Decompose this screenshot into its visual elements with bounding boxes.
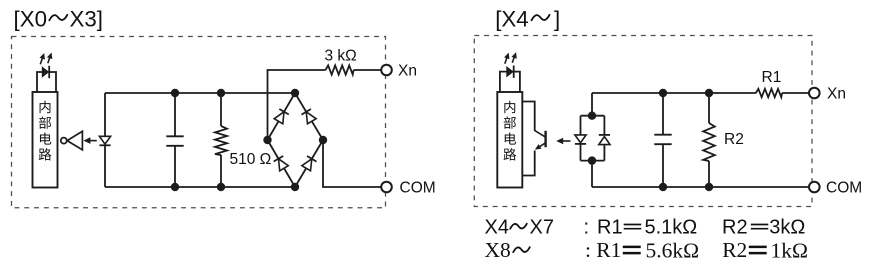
light emission arrows (right LED) bbox=[504, 52, 517, 64]
svg-text:COM: COM bbox=[826, 180, 862, 197]
bridge diode D6 (lower right) bbox=[302, 156, 317, 171]
indicator LED loop wire (right) bbox=[500, 72, 520, 92]
svg-text:1kΩ: 1kΩ bbox=[771, 238, 808, 262]
wire diode-pair top stub bbox=[591, 93, 593, 116]
phototransistor emitter lead bracket bbox=[522, 151, 534, 176]
header label [X0~X3] bbox=[14, 7, 103, 32]
wire bottom rail (right) bbox=[592, 186, 809, 188]
resistor R1 bbox=[756, 89, 809, 97]
svg-text::: : bbox=[585, 238, 591, 262]
terminal Xn (right) bbox=[809, 88, 820, 99]
phototransistor collector lead bracket bbox=[522, 102, 534, 131]
diode bridge arm wires bbox=[268, 93, 324, 187]
capacitor C1 bbox=[166, 93, 183, 187]
svg-text:Xn: Xn bbox=[398, 63, 417, 80]
header label [X4~] bbox=[495, 7, 560, 32]
wire diode-pair bottom bus bbox=[581, 160, 605, 162]
protection diode D9 (right of pair, reversed) bbox=[599, 116, 610, 161]
resistor R6 3kohm bbox=[326, 65, 382, 74]
node dots (diode pair) bbox=[588, 112, 596, 165]
svg-text:R2: R2 bbox=[722, 238, 747, 262]
svg-text:COM: COM bbox=[400, 180, 436, 197]
buffer U2 (receiver) bbox=[61, 131, 83, 150]
bridge node dots bbox=[263, 89, 327, 191]
svg-text:R2: R2 bbox=[722, 217, 748, 239]
svg-text:3 kΩ: 3 kΩ bbox=[325, 48, 357, 65]
bridge diode D3 (upper left) bbox=[274, 109, 289, 124]
svg-text:X7: X7 bbox=[530, 217, 554, 239]
wire photocoupler LED branch (left, x=105) bbox=[104, 93, 106, 187]
svg-text:X3]: X3] bbox=[70, 7, 103, 32]
wire COM branch (left) bbox=[323, 140, 381, 187]
bridge diode D5 (lower left) bbox=[274, 156, 289, 171]
svg-text:]: ] bbox=[554, 7, 560, 32]
svg-text:X4: X4 bbox=[485, 217, 509, 239]
left circuit dashed enclosure bbox=[12, 37, 386, 208]
photocoupler LED D2 bbox=[99, 136, 110, 145]
wire top rail (right) bbox=[592, 92, 756, 94]
note line 1: X4~X7 resistor values bbox=[485, 217, 806, 239]
indicator LED D1 bbox=[42, 66, 49, 78]
svg-text:510 Ω: 510 Ω bbox=[230, 151, 272, 168]
note line 2: X8~ resistor values bbox=[485, 238, 808, 262]
internal circuit box U3 bbox=[497, 92, 522, 188]
resistor R5 510ohm bbox=[215, 93, 227, 187]
light arrow into buffer bbox=[83, 137, 96, 144]
wire diode-pair top bus bbox=[581, 115, 605, 117]
phototransistor Q1 bbox=[534, 130, 545, 149]
indicator LED D7 bbox=[506, 66, 513, 78]
internal circuit box U1 bbox=[33, 92, 58, 188]
svg-text:Xn: Xn bbox=[827, 86, 846, 103]
terminal COM (right) bbox=[809, 182, 820, 193]
wire diode-pair bottom stub bbox=[591, 161, 593, 187]
light emission arrows (left LED) bbox=[40, 53, 53, 65]
terminal Xn (left) bbox=[381, 65, 392, 76]
light arrow into phototransistor bbox=[556, 138, 570, 145]
right circuit dashed enclosure bbox=[474, 36, 812, 207]
wire top rail (left) bbox=[105, 92, 295, 94]
svg-text:R1: R1 bbox=[596, 238, 621, 262]
node junction dots (right rails) bbox=[659, 89, 713, 191]
resistor R2 bbox=[703, 93, 715, 187]
terminal COM (left) bbox=[381, 182, 392, 193]
bridge diode D4 (upper right) bbox=[302, 109, 317, 124]
node junction dots (left rails) bbox=[171, 89, 225, 191]
svg-text:[X0: [X0 bbox=[14, 7, 47, 32]
capacitor C2 bbox=[654, 93, 671, 187]
wire Xn branch (left) bbox=[268, 70, 326, 140]
svg-text:X8: X8 bbox=[485, 238, 511, 262]
svg-text:[X4: [X4 bbox=[495, 7, 528, 32]
svg-text:5.1kΩ: 5.1kΩ bbox=[645, 217, 698, 239]
svg-text:R2: R2 bbox=[724, 131, 744, 148]
svg-text:3kΩ: 3kΩ bbox=[769, 217, 805, 239]
svg-text:5.6kΩ: 5.6kΩ bbox=[646, 238, 700, 262]
indicator LED loop wire (left) bbox=[37, 72, 56, 92]
svg-text:R1: R1 bbox=[762, 69, 782, 86]
wire bottom rail (left) bbox=[105, 186, 295, 188]
svg-text:R1: R1 bbox=[597, 217, 623, 239]
svg-text::: : bbox=[584, 217, 590, 239]
photocoupler LED D8 (left of pair) bbox=[575, 116, 586, 161]
